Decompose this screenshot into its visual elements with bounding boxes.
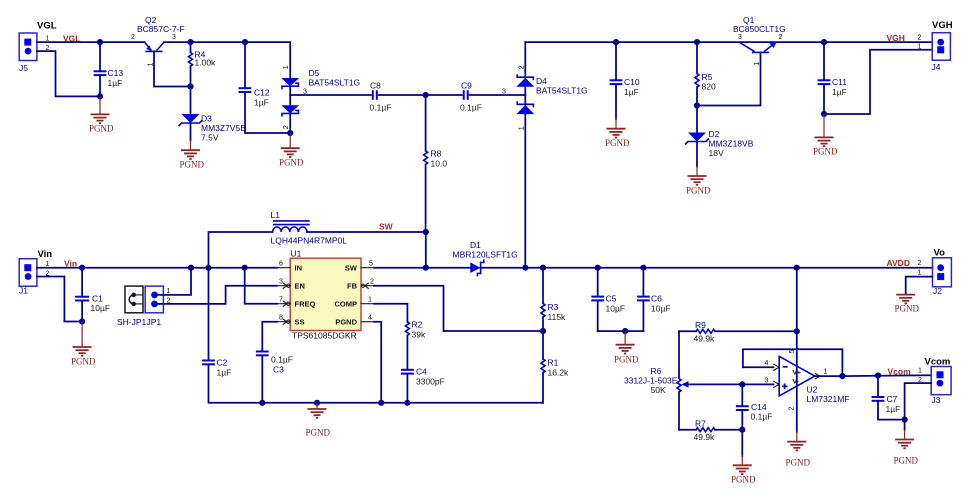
svg-text:10µF: 10µF (651, 304, 671, 314)
svg-text:EN: EN (295, 282, 305, 291)
svg-text:1µF: 1µF (217, 368, 232, 378)
svg-text:AVDD: AVDD (887, 258, 910, 268)
capacitor C3 (256, 322, 293, 403)
svg-text:C6: C6 (651, 294, 662, 304)
node FREQ branch junction (242, 265, 248, 271)
wire J2 pin1 to ground (906, 277, 933, 295)
svg-text:C2: C2 (217, 358, 228, 368)
node C11 top junction (821, 39, 827, 45)
svg-text:SW: SW (379, 222, 394, 232)
svg-text:R9: R9 (695, 320, 706, 330)
resistor R1 (541, 331, 569, 403)
node D4 bottom junction (522, 265, 528, 271)
svg-text:0.1µF: 0.1µF (751, 412, 773, 422)
inductor L1 LQH44PN4R7MP0L (209, 210, 426, 268)
node V+ branch junction on rail (794, 265, 800, 271)
ground PGND under C7 (894, 420, 919, 466)
svg-text:BAT54SLT1G: BAT54SLT1G (309, 78, 361, 88)
wire FB to divider (374, 286, 543, 331)
svg-text:5: 5 (369, 261, 373, 268)
svg-text:7.5V: 7.5V (201, 133, 219, 143)
wire C11 bottom to J4 pin1 (824, 50, 932, 114)
node C6 top junction (640, 265, 646, 271)
svg-text:4: 4 (368, 315, 372, 322)
svg-text:6: 6 (279, 261, 283, 268)
svg-text:1µF: 1µF (832, 87, 847, 97)
svg-text:FREQ: FREQ (295, 300, 316, 309)
wire rail down to R9 / op-amp V+ (796, 268, 798, 376)
capacitor C8 (370, 81, 392, 113)
svg-text:R3: R3 (548, 302, 559, 312)
pin 8 SS (277, 315, 290, 325)
svg-text:D3: D3 (201, 114, 212, 124)
svg-text:PGND: PGND (895, 304, 920, 314)
node C5/C6 ground junction (622, 328, 628, 334)
wire ground bus (262, 402, 543, 404)
svg-text:R1: R1 (548, 358, 559, 368)
svg-text:R2: R2 (412, 320, 423, 330)
svg-text:2: 2 (518, 65, 525, 69)
capacitor C6 (637, 268, 671, 331)
wire D4 pin2 up and right along top rail (525, 41, 932, 43)
svg-text:2: 2 (283, 125, 290, 129)
connector J2 (918, 248, 952, 297)
svg-text:4: 4 (765, 360, 769, 367)
resistor R7 (679, 419, 742, 443)
svg-text:V-: V- (793, 379, 799, 386)
svg-text:C11: C11 (832, 77, 847, 87)
pin 7 FREQ (277, 297, 290, 307)
svg-text:C1: C1 (92, 294, 103, 304)
node D5 pin2 / C12 bottom junction (287, 130, 293, 136)
wire R6 bottom to R7 (678, 392, 680, 430)
svg-text:JP1: JP1 (147, 317, 162, 327)
ground PGND under C10 (605, 129, 630, 148)
svg-text:SS: SS (295, 318, 305, 327)
resistor R8 (424, 95, 448, 232)
svg-text:J3: J3 (932, 395, 941, 405)
svg-text:MM3Z18VB: MM3Z18VB (709, 139, 754, 149)
wire C12 top to D5 pin1 (245, 42, 290, 78)
ground PGND under C1 (71, 322, 96, 367)
wire JP1 pin1 up to Vin rail (157, 268, 191, 295)
node SW junction (L1/R8) (423, 229, 429, 235)
svg-text:VGL: VGL (37, 21, 57, 32)
wire feedback loop output to pin4 (743, 349, 843, 376)
svg-text:MM3Z7V5B: MM3Z7V5B (201, 123, 246, 133)
transistor Q2 BC857C-7-F (PNP) (131, 15, 191, 87)
wire COMP to R2 (374, 304, 407, 322)
ground PGND under C13 (89, 96, 114, 133)
wire R9 left down to R6 (678, 331, 680, 378)
ground PGND under C5/C6 (614, 331, 639, 364)
svg-text:1µF: 1µF (108, 78, 123, 88)
svg-text:J4: J4 (932, 62, 941, 72)
ground PGND under C11 (813, 114, 838, 157)
capacitor C7 (872, 376, 905, 420)
ground PGND under U2 (786, 442, 811, 468)
svg-text:FB: FB (347, 282, 358, 291)
wire AVDD rail (598, 267, 933, 269)
wire C8 to C9 (379, 94, 462, 96)
node C10 top junction (613, 39, 619, 45)
svg-text:PGND: PGND (89, 124, 114, 134)
svg-text:8: 8 (279, 315, 283, 322)
resistor R3 (541, 268, 566, 331)
node C1 bottom junction (79, 318, 85, 324)
ground PGND under J2 (895, 295, 920, 314)
svg-text:PGND: PGND (614, 355, 639, 365)
svg-text:115k: 115k (548, 312, 567, 322)
wire U1 PGND to bus (374, 322, 381, 403)
node R5 bottom / D2 / Q1 base junction (694, 102, 700, 108)
svg-text:C10: C10 (624, 77, 640, 87)
svg-text:J2: J2 (933, 286, 942, 296)
wire R4 top to C12 top (191, 41, 246, 43)
node C7 bottom junction (902, 417, 908, 423)
node C7 top junction (875, 372, 881, 378)
connector J3 (918, 357, 951, 406)
svg-text:D1: D1 (470, 240, 481, 250)
svg-text:COMP: COMP (335, 300, 358, 309)
svg-text:C5: C5 (606, 294, 617, 304)
svg-text:0.1µF: 0.1µF (271, 355, 293, 365)
wire JP1 pin2 to U1 EN (157, 286, 277, 304)
svg-text:49.9k: 49.9k (694, 432, 716, 442)
potentiometer R6 3312J-1-503E (624, 366, 742, 395)
svg-text:R7: R7 (695, 419, 706, 429)
svg-text:U2: U2 (807, 385, 818, 395)
node C13 bottom junction (97, 93, 103, 99)
ground PGND under D3 (180, 150, 205, 169)
svg-text:1µF: 1µF (886, 404, 901, 414)
diode D4 BAT54SLT1G (dual schottky, pointing up) (516, 42, 587, 268)
resistor R2 (405, 320, 426, 370)
svg-text:PGND: PGND (605, 138, 630, 148)
svg-text:Vo: Vo (934, 248, 946, 259)
svg-text:R5: R5 (702, 72, 713, 82)
connector J1 (19, 249, 52, 296)
connector J5 (19, 21, 57, 74)
node output junction (839, 373, 845, 379)
svg-text:BC850CLT1G: BC850CLT1G (733, 24, 786, 34)
svg-text:SH-JP1: SH-JP1 (117, 317, 147, 327)
svg-text:VGH: VGH (932, 20, 953, 31)
svg-text:2: 2 (918, 260, 922, 267)
svg-text:BC857C-7-F: BC857C-7-F (137, 24, 185, 34)
svg-text:39k: 39k (412, 330, 426, 340)
svg-text:R8: R8 (431, 149, 442, 159)
pin 2 V- (789, 376, 797, 441)
svg-text:1µF: 1µF (624, 87, 639, 97)
capacitor C5 (591, 268, 625, 331)
svg-text:C8: C8 (370, 81, 381, 91)
svg-text:C9: C9 (461, 81, 472, 91)
svg-text:C7: C7 (887, 394, 898, 404)
ground PGND under D2 (686, 176, 711, 196)
transistor Q1 BC850CLT1G (NPN) (697, 15, 786, 106)
svg-text:3: 3 (765, 378, 769, 385)
svg-text:0.1µF: 0.1µF (460, 103, 482, 113)
svg-text:1: 1 (918, 368, 922, 375)
wire J3 pin2 to ground (905, 383, 932, 420)
node VGL junction at C13 top (97, 39, 103, 45)
resistor R9 (679, 320, 797, 344)
node R9 right junction (794, 328, 800, 334)
pin 1 output (815, 369, 843, 379)
svg-text:10µF: 10µF (91, 303, 111, 313)
svg-text:10µF: 10µF (606, 304, 626, 314)
capacitor C12 (239, 42, 291, 133)
node R4 top junction (187, 39, 193, 45)
svg-text:L1: L1 (271, 210, 281, 220)
svg-text:Vin: Vin (38, 249, 53, 260)
diode D5 BAT54SLT1G (dual schottky) (281, 65, 360, 133)
capacitor C14 (736, 384, 773, 429)
svg-text:PGND: PGND (786, 458, 811, 468)
zener diode D3 MM3Z7V5B (179, 87, 247, 150)
svg-text:TPS61085DGKR: TPS61085DGKR (292, 331, 357, 341)
svg-text:D4: D4 (536, 76, 547, 86)
ground PGND under C14 (731, 430, 756, 485)
svg-text:R6: R6 (651, 366, 662, 376)
svg-text:1: 1 (368, 297, 372, 304)
pin 3 EN (277, 279, 290, 289)
node L1/C2 junction on rail (205, 265, 211, 271)
node C8/C9/R8 junction (423, 92, 429, 98)
capacitor C4 (401, 367, 445, 403)
svg-text:C13: C13 (108, 68, 124, 78)
svg-text:PGND: PGND (731, 475, 756, 485)
svg-text:2: 2 (370, 279, 374, 286)
wire rail down to U1 FREQ (245, 268, 277, 304)
svg-text:Vcom: Vcom (888, 367, 912, 377)
svg-text:50K: 50K (651, 385, 666, 395)
svg-text:1µF: 1µF (254, 98, 269, 108)
svg-text:SW: SW (345, 264, 358, 273)
jumper shunt SH-JP1 (117, 286, 147, 327)
diode D1 MBR120LSFT1G (schottky) (453, 240, 518, 276)
wire D1 cathode to output rail (481, 267, 598, 269)
svg-text:820: 820 (702, 82, 716, 92)
svg-text:1: 1 (918, 44, 922, 51)
node C11 bottom junction (821, 111, 827, 117)
node C1 top junction (79, 265, 85, 271)
node R4 bottom / Q2 base junction (187, 83, 193, 89)
svg-text:PGND: PGND (813, 147, 838, 157)
svg-text:2: 2 (779, 34, 783, 41)
capacitor C13 (94, 42, 124, 96)
svg-text:J5: J5 (19, 63, 28, 73)
wire J5 pin2 down to C13 bottom (37, 51, 100, 96)
svg-text:BAT54SLT1G: BAT54SLT1G (536, 86, 588, 96)
node U1 PGND bus junction (378, 400, 384, 406)
jumper JP1 (145, 286, 170, 327)
resistor R4 (189, 42, 217, 86)
svg-text:3: 3 (172, 34, 176, 41)
svg-text:J1: J1 (19, 286, 28, 296)
svg-text:VGH: VGH (887, 33, 905, 43)
capacitor C11 (818, 42, 848, 114)
resistor R5 (695, 42, 716, 105)
IC U1 TPS61085DGKR (290, 249, 361, 341)
node C4 bottom junction (404, 400, 410, 406)
node R3/R1/FB junction (540, 328, 546, 334)
svg-text:C4: C4 (416, 367, 427, 377)
capacitor C1 (75, 268, 110, 322)
wire J1 pin1 to U1 IN (37, 267, 277, 269)
svg-text:PGND: PGND (335, 318, 357, 327)
pin 6 IN (277, 261, 290, 268)
svg-text:10.0: 10.0 (431, 159, 448, 169)
op-amp U2 LM7321MF (779, 356, 849, 404)
svg-text:PGND: PGND (279, 158, 304, 168)
svg-text:C3: C3 (273, 365, 284, 375)
capacitor C10 (610, 42, 640, 128)
svg-text:PGND: PGND (686, 186, 711, 196)
pin 3 non-inverting input (742, 378, 779, 388)
svg-text:16.2k: 16.2k (548, 368, 570, 378)
capacitor C2 (202, 268, 262, 403)
svg-text:U1: U1 (291, 249, 302, 259)
svg-text:PGND: PGND (306, 428, 331, 438)
node C12 top junction (242, 39, 248, 45)
zener diode D2 MM3Z18VB (685, 106, 754, 176)
svg-text:LQH44PN4R7MP0L: LQH44PN4R7MP0L (271, 236, 348, 246)
svg-text:3: 3 (738, 34, 742, 41)
wire Q2 collector to R4 top (164, 41, 191, 43)
svg-text:2: 2 (131, 34, 135, 41)
node bus PGND junction (314, 400, 320, 406)
svg-text:LM7321MF: LM7321MF (807, 394, 850, 404)
pin 2 FB (361, 279, 374, 289)
svg-text:7: 7 (279, 297, 283, 304)
wire C13 to Q2 emitter (100, 41, 145, 43)
svg-text:PGND: PGND (180, 160, 205, 170)
svg-text:PGND: PGND (894, 456, 919, 466)
svg-text:1: 1 (824, 369, 828, 376)
wire SW down to U1 SW pin (425, 232, 427, 268)
svg-text:1.00k: 1.00k (195, 58, 217, 68)
pin 5 SW (361, 261, 374, 268)
node SW pin junction (423, 265, 429, 271)
wire SW pin to D1 (374, 267, 470, 269)
svg-text:49.9k: 49.9k (694, 334, 716, 344)
node pin3/C14 junction (739, 381, 745, 387)
pin 4 inverting input (743, 360, 779, 370)
svg-text:1: 1 (518, 126, 525, 130)
wire J5 pin1 to C13 (37, 41, 100, 43)
connector J4 (918, 20, 953, 72)
svg-text:1: 1 (283, 65, 290, 69)
svg-text:3: 3 (279, 279, 283, 286)
ground PGND under D5 (279, 133, 304, 168)
svg-text:D5: D5 (309, 68, 320, 78)
svg-text:2: 2 (789, 407, 796, 411)
node R3 top junction (540, 265, 546, 271)
svg-text:0.1µF: 0.1µF (370, 103, 392, 113)
svg-text:3312J-1-503E: 3312J-1-503E (624, 376, 678, 386)
svg-text:D2: D2 (709, 129, 720, 139)
svg-text:1: 1 (918, 270, 922, 277)
svg-text:C14: C14 (751, 402, 767, 412)
wire C5/C6 bottoms joined (598, 330, 644, 332)
svg-text:IN: IN (295, 264, 303, 273)
node JP1 pin1 junction on rail (188, 265, 194, 271)
pin 4 PGND (361, 315, 374, 322)
svg-text:1: 1 (167, 288, 171, 295)
svg-text:C12: C12 (254, 88, 270, 98)
svg-text:MBR120LSFT1G: MBR120LSFT1G (453, 250, 518, 260)
wire output to J3 pin1 (842, 374, 931, 377)
node C14/R7 junction (739, 427, 745, 433)
node C5 top junction (595, 265, 601, 271)
node C3 bottom junction (259, 400, 265, 406)
svg-text:2: 2 (918, 35, 922, 42)
ground PGND on bus (306, 403, 331, 438)
svg-text:3300pF: 3300pF (416, 377, 445, 387)
svg-text:18V: 18V (709, 148, 724, 158)
svg-text:Vcom: Vcom (925, 357, 951, 368)
wire J1 pin2 down to C1 bottom (37, 277, 82, 322)
svg-text:PGND: PGND (71, 357, 96, 367)
pin 1 COMP (361, 297, 374, 304)
node R5 top junction (694, 39, 700, 45)
capacitor C9 (460, 81, 482, 113)
